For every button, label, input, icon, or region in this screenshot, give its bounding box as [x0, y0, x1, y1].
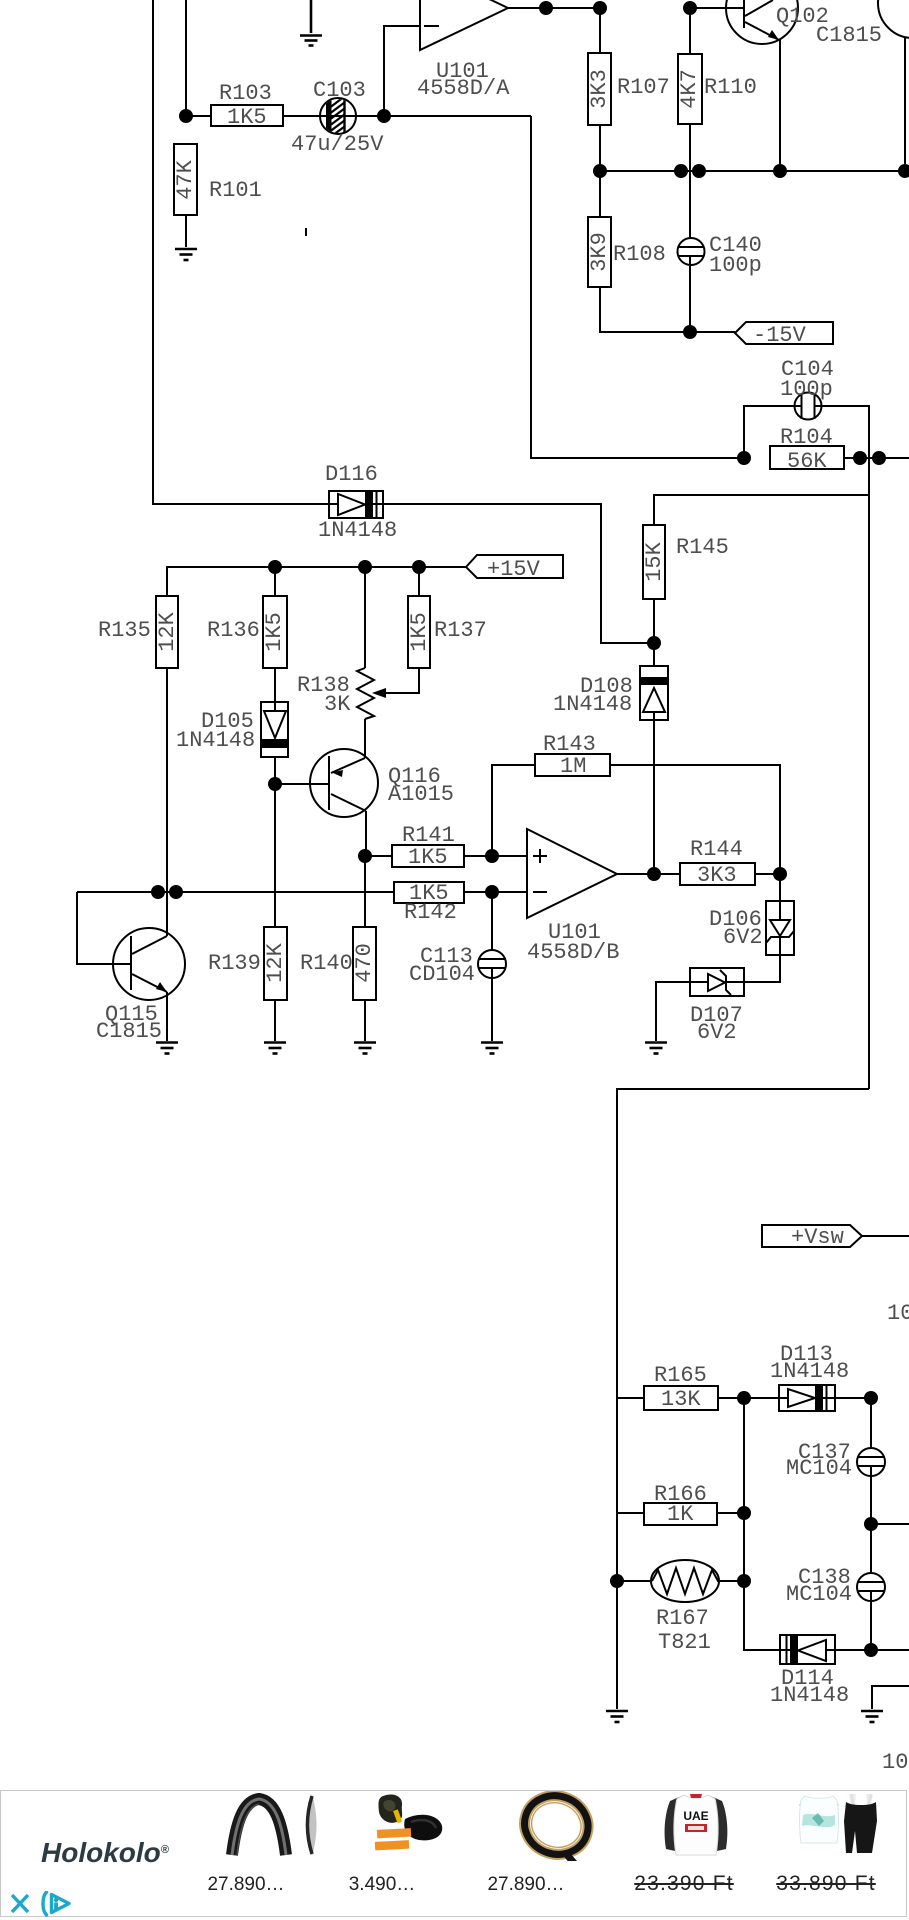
wire: C138 down to D114 node	[870, 1591, 872, 1650]
svg-text:R165: R165	[654, 1363, 707, 1388]
trimmer R138 3K (zigzag)	[357, 668, 374, 719]
transistor (partial, top right)	[878, 0, 909, 171]
wire: down to R107	[599, 8, 601, 53]
node: C103 output junction	[377, 109, 391, 123]
arrow: R138 wiper	[372, 688, 386, 698]
svg-text:R137: R137	[434, 618, 487, 643]
wire: R144 right	[755, 873, 780, 875]
wire: R139 to ground	[274, 1000, 276, 1041]
wire: to R167	[617, 1580, 653, 1582]
svg-text:+15V: +15V	[487, 557, 541, 582]
node: R145 / D116 / D108	[647, 636, 661, 650]
svg-text:C1815: C1815	[96, 1019, 162, 1044]
wire: Q116 collector to R141 node	[365, 811, 367, 856]
wire: feedback line down right side	[868, 458, 870, 1089]
svg-text:+Vsw: +Vsw	[791, 1225, 844, 1250]
resistor R137 1K5	[408, 596, 430, 668]
wire: rail down to R108	[599, 171, 601, 217]
svg-text:10: 10	[887, 1301, 909, 1326]
capacitor C138 MC104	[857, 1573, 885, 1601]
diode D105 1N4148 (pointing down)	[261, 702, 288, 757]
wire: R138 to Q116 emitter	[364, 719, 366, 758]
wire: D113 node down to R166/R167/D114	[744, 1398, 780, 1650]
ground (C113)	[481, 1043, 503, 1054]
wire: rail to R137	[418, 567, 420, 596]
wire: Q115 collector up to node	[166, 892, 168, 936]
svg-text:R103: R103	[219, 81, 272, 106]
wire: R103 left	[186, 115, 211, 117]
svg-text:C1815: C1815	[816, 23, 882, 48]
svg-text:C103: C103	[313, 78, 366, 103]
node: R167 right	[737, 1574, 751, 1588]
node: D114 / C138	[864, 1643, 878, 1657]
wire: R143 right down to R144 node	[610, 765, 780, 874]
resistor R101 47K	[174, 144, 197, 215]
wire: C137 to node	[870, 1466, 872, 1524]
svg-text:1N4148: 1N4148	[176, 728, 255, 753]
node: minus input / C113	[485, 885, 499, 899]
wire: D107 left to ground	[656, 982, 690, 1041]
svg-text:12K: 12K	[155, 611, 180, 651]
ground (bottom right)	[861, 1711, 883, 1722]
wire: +Vsw to edge	[862, 1235, 909, 1237]
svg-text:1K: 1K	[667, 1502, 694, 1527]
wire: node to D113	[744, 1397, 779, 1399]
node: output to R107	[593, 1, 607, 15]
resistor R135 12K	[156, 596, 178, 668]
svg-text:1N4148: 1N4148	[553, 692, 632, 717]
wire: R140 to ground	[364, 1000, 366, 1041]
svg-text:D116: D116	[325, 462, 378, 487]
transistor Q115 C1815	[113, 928, 185, 1000]
wire: R103 to C103	[283, 115, 321, 117]
ground (R139)	[264, 1043, 286, 1054]
svg-text:UAE: UAE	[683, 1809, 708, 1823]
svg-text:3K3: 3K3	[587, 69, 612, 109]
node: base feed Q102	[683, 1, 697, 15]
capacitor C104 100p	[795, 393, 822, 420]
resistor R143 1M	[535, 754, 610, 776]
ground (R167)	[606, 1711, 628, 1722]
node: C137 / C138 / out	[864, 1517, 878, 1531]
svg-text:6V2: 6V2	[697, 1020, 737, 1045]
node: rail jog right	[692, 164, 706, 178]
zener D106 6V2	[766, 901, 794, 955]
wire: collector rail y=171	[600, 170, 905, 172]
wire: D114 right to edge	[835, 1649, 909, 1651]
svg-text:R107: R107	[617, 75, 670, 100]
svg-text:3K3: 3K3	[697, 863, 737, 888]
svg-text:1M: 1M	[560, 754, 586, 779]
wire: node to Q102 base	[690, 7, 744, 9]
capacitor C103 47u/25V (electrolytic)	[320, 96, 356, 137]
resistor R139 12K	[264, 927, 287, 1000]
resistor R142 1K5	[394, 882, 464, 903]
capacitor C113 CD104	[478, 950, 506, 978]
node: R144 / R143 / D106	[773, 867, 787, 881]
diode D116 1N4148	[329, 491, 383, 518]
wire: feedback from minus input down to C103 node	[384, 26, 420, 116]
svg-text:4K7: 4K7	[677, 69, 702, 109]
power flag -15V	[735, 322, 833, 344]
svg-text:13K: 13K	[661, 1387, 701, 1412]
wire: C113 node down	[491, 892, 493, 959]
node: R107/R108	[593, 164, 607, 178]
wire: +15V rail	[167, 567, 466, 596]
svg-text:100p: 100p	[709, 253, 762, 278]
node: rail R137	[412, 560, 426, 574]
wire: node down to R140 (crossing)	[364, 856, 366, 927]
svg-text:47u/25V: 47u/25V	[291, 132, 384, 157]
thermistor R167 T821	[651, 1560, 719, 1602]
node: R167 left	[610, 1574, 624, 1588]
svg-text:CD104: CD104	[409, 962, 475, 987]
wire: node down-right to R104 rail	[531, 116, 744, 458]
svg-text:1K5: 1K5	[227, 105, 267, 130]
wire: node down to C138	[870, 1524, 872, 1582]
resistor R165 13K	[644, 1386, 718, 1410]
wire: R143 left down to plus node	[492, 765, 535, 856]
node: rail R136	[268, 560, 282, 574]
wire: rail down to C140	[689, 171, 691, 247]
ground (R140)	[354, 1043, 376, 1054]
svg-text:56K: 56K	[787, 449, 827, 474]
diode D108 1N4148 (pointing up)	[640, 666, 668, 720]
wire: C113 to ground	[491, 968, 493, 1041]
wire: R145 top link	[654, 495, 869, 525]
diode D113 1N4148	[779, 1385, 835, 1411]
svg-text:R142: R142	[404, 900, 457, 925]
node: junction at R101/R103	[179, 109, 193, 123]
wire: R167 right	[717, 1580, 744, 1582]
wire: C104 left leg	[744, 406, 801, 458]
wire: R101 to ground	[185, 215, 187, 247]
capacitor C137 MC104	[857, 1448, 885, 1476]
ground (R101)	[175, 249, 197, 260]
resistor R103 1K5	[211, 105, 283, 126]
ad banner	[0, 1790, 907, 1917]
resistor R108 3K9	[588, 217, 611, 287]
resistor R140 470	[353, 927, 376, 1000]
svg-text:-15V: -15V	[753, 323, 807, 348]
node: Q116 collector / R141 / R140	[358, 849, 372, 863]
wire: edge stub to ground	[872, 1686, 909, 1709]
svg-text:1N4148: 1N4148	[770, 1683, 849, 1708]
wire: op-amp A output	[508, 7, 602, 9]
svg-text:R135: R135	[98, 618, 151, 643]
resistor R166 1K	[644, 1503, 717, 1525]
wire: R166 left tap	[617, 1512, 644, 1514]
wire: R141 right to plus input	[464, 855, 527, 857]
ground (D107)	[645, 1043, 667, 1054]
svg-text:100p: 100p	[780, 377, 833, 402]
svg-text:1K5: 1K5	[407, 612, 432, 652]
wire: R142 line corner down to Q115 base	[77, 892, 131, 964]
wire: R141 left	[365, 855, 392, 857]
node: D105/Q116 base	[268, 777, 282, 791]
wire: node to edge	[871, 1523, 909, 1525]
wire: base node to Q116	[275, 783, 329, 785]
node: R165 / D113	[737, 1391, 751, 1405]
node: R104 left / C104	[737, 451, 751, 465]
stray tick mark	[305, 228, 307, 236]
svg-text:1K5: 1K5	[408, 845, 448, 870]
zener D107 6V2	[690, 968, 744, 996]
node: output dot (stub)	[539, 1, 553, 15]
svg-text:R167: R167	[656, 1606, 709, 1631]
svg-text:R108: R108	[613, 242, 666, 267]
wire: long left vertical feeding D116	[153, 0, 329, 504]
resistor R145 15K	[643, 525, 665, 599]
wire: op-amp B output	[617, 873, 680, 875]
svg-text:MC104: MC104	[786, 1456, 852, 1481]
wire: C103 to feedback node	[355, 115, 531, 117]
node: rail jog left	[674, 164, 688, 178]
wire: C104 right leg	[815, 406, 869, 458]
wire: R104 right to edge	[844, 457, 909, 459]
resistor R141 1K5	[392, 845, 464, 867]
svg-text:A1015: A1015	[388, 782, 454, 807]
diode D114 1N4148 (pointing left)	[780, 1635, 835, 1664]
node: C140 / -15V	[683, 325, 697, 339]
svg-text:1K5: 1K5	[262, 612, 287, 652]
svg-text:15K: 15K	[642, 541, 667, 581]
svg-text:R144: R144	[690, 837, 743, 862]
node: Q102 emitter on rail	[773, 164, 787, 178]
node: right transistor emitter on rail	[898, 164, 909, 178]
resistor R104 56K	[770, 446, 844, 469]
power flag +Vsw	[762, 1225, 862, 1247]
resistor R110 4K7	[678, 54, 702, 124]
node: output / D108 / R144	[647, 867, 661, 881]
op-amp U1 U101 4558D/B	[527, 829, 617, 918]
svg-text:3K: 3K	[324, 692, 351, 717]
node: jog right	[169, 885, 183, 899]
svg-text:R110: R110	[704, 75, 757, 100]
svg-text:R139: R139	[208, 951, 261, 976]
wire: down to C137	[870, 1398, 872, 1457]
svg-text:R140: R140	[300, 951, 353, 976]
svg-text:MC104: MC104	[786, 1582, 852, 1607]
svg-text:1N4148: 1N4148	[318, 518, 397, 543]
svg-text:6V2: 6V2	[723, 925, 763, 950]
svg-text:R136: R136	[207, 618, 260, 643]
wire: R167 node to ground	[616, 1581, 618, 1709]
wire: left vertical to R103 node	[185, 0, 187, 116]
wire: R135 bottom long run	[166, 668, 168, 892]
resistor R136 1K5	[263, 596, 287, 668]
svg-text:10u: 10u	[882, 1750, 909, 1775]
wire: D106 bottom to D107	[744, 955, 780, 982]
wire: D108 anode down to op-amp B output	[653, 720, 655, 874]
svg-text:12K: 12K	[263, 942, 288, 982]
wire: Q115 emitter to ground	[166, 992, 168, 1041]
wire: feedback corner to bottom block	[617, 1089, 869, 1581]
op-amp U1 U101 4558D/A (clipped at top)	[420, 0, 508, 50]
capacitor C140 100p	[678, 238, 705, 265]
wire: R108 bottom to -15V	[600, 287, 735, 332]
node: D113 / C137	[864, 1391, 878, 1405]
svg-text:4558D/A: 4558D/A	[417, 76, 510, 101]
wire: R142 right to minus input	[464, 891, 527, 893]
wire: R165 left tap	[617, 1397, 644, 1399]
transistor Q102 C1815	[726, 0, 798, 171]
svg-text:3K9: 3K9	[587, 232, 612, 272]
wire: rail to R136	[274, 567, 276, 596]
svg-text:4558D/B: 4558D/B	[527, 940, 619, 965]
node: R104 right jog left	[853, 451, 867, 465]
wire: R107 bottom to rail	[599, 125, 601, 171]
wire: R136 to D105	[274, 668, 276, 702]
svg-text:R145: R145	[676, 535, 729, 560]
node: rail R138	[358, 560, 372, 574]
wire: C140 down to -15V line	[689, 256, 691, 332]
transistor Q116 A1015	[310, 749, 378, 817]
svg-text:470: 470	[352, 943, 377, 983]
wire: R166 right	[717, 1512, 744, 1514]
power flag +15V	[466, 555, 563, 578]
wire: R142 left long run	[77, 891, 394, 893]
svg-text:1N4148: 1N4148	[770, 1359, 849, 1384]
wire: D105 to base node, down to R139	[274, 757, 276, 927]
node: R166 / vertical	[737, 1506, 751, 1520]
resistor R107 3K3	[588, 53, 611, 125]
ground (Q115)	[156, 1043, 178, 1054]
wire: R137 bottom to wiper arrow	[384, 668, 419, 693]
node: plus input / R143	[485, 849, 499, 863]
node: R135 / collector jog left	[151, 885, 165, 899]
wire: R145 bottom to node	[653, 599, 655, 666]
wire: node down to R110	[689, 8, 691, 54]
wire: rail down to R138	[364, 567, 366, 668]
wire: D113 right	[835, 1397, 871, 1399]
svg-text:T821: T821	[658, 1630, 711, 1655]
svg-text:47K: 47K	[173, 159, 198, 199]
svg-text:R104: R104	[780, 425, 833, 450]
node: R104 right jog right	[872, 451, 886, 465]
wire: R110 bottom to rail	[689, 124, 691, 171]
svg-text:R101: R101	[209, 178, 262, 203]
wire: D116 right to D108 node	[383, 504, 654, 643]
wire: node to D106	[779, 874, 781, 901]
resistor R144 3K3	[680, 863, 755, 885]
ground (top, near op-amp U101/A input)	[300, 0, 322, 46]
wire: R165 right	[718, 1397, 744, 1399]
